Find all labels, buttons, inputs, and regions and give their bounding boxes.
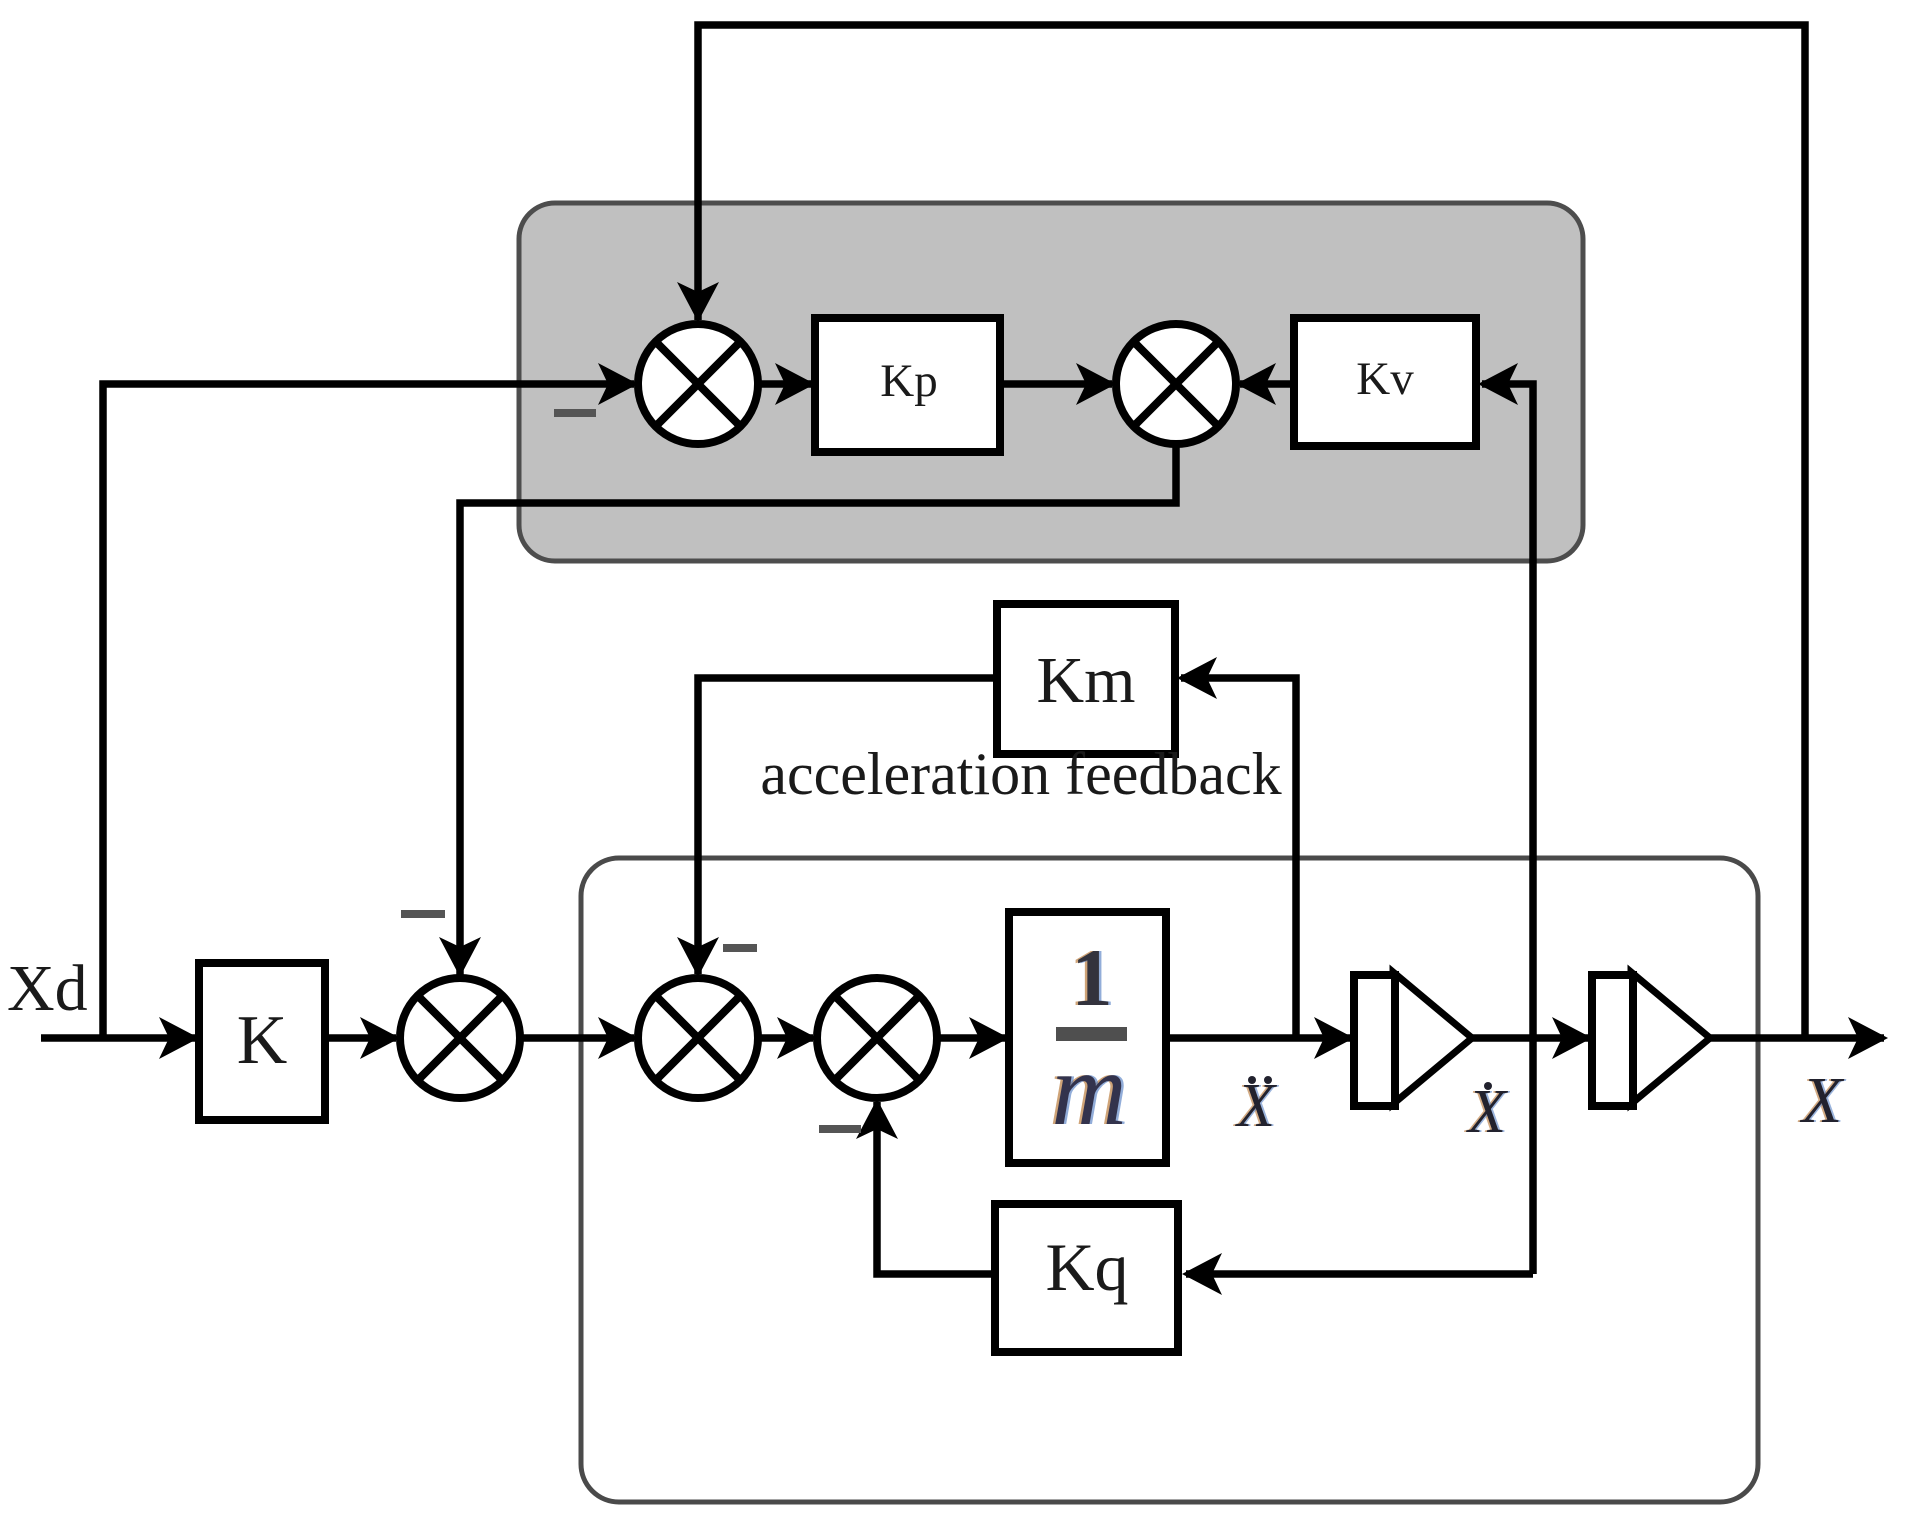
svg-text:Kp: Kp — [880, 355, 937, 407]
minus sign at top summing junction — [554, 409, 596, 417]
wire Kq output up to summing junction C — [877, 1102, 995, 1274]
summing junction circle A — [400, 978, 520, 1098]
integrator 2 — [1592, 972, 1710, 1106]
wire integrator 1 to integrator 2 — [1472, 1034, 1588, 1042]
label Xdot (velocity) — [1463, 1078, 1510, 1146]
plant rounded outline box — [581, 858, 1758, 1502]
wire output X — [1710, 1034, 1884, 1042]
wire Kp to summing junction 2 — [1000, 380, 1112, 388]
wire Km output down to summing junction B — [698, 678, 997, 974]
wire Xd input — [41, 1034, 197, 1042]
svg-text:K: K — [237, 1002, 288, 1079]
gain block Kv — [1294, 318, 1476, 446]
svg-text:m: m — [1051, 1032, 1126, 1147]
wire summing junction B to summing junction C — [758, 1034, 813, 1042]
minus sign at summing junction B — [723, 944, 757, 952]
svg-text:Kv: Kv — [1356, 353, 1414, 405]
gain block 1/m — [1009, 912, 1166, 1163]
integrator 1 — [1354, 972, 1472, 1106]
svg-text:X: X — [1799, 1064, 1845, 1137]
gain block Kp — [815, 318, 1000, 452]
gain block Km — [997, 604, 1175, 754]
wire K to summing junction A — [325, 1034, 396, 1042]
gain block K — [199, 963, 325, 1120]
label X (position output) — [1797, 1064, 1847, 1137]
svg-text:1: 1 — [1072, 932, 1113, 1023]
wire acceleration branch up to Km — [1181, 678, 1296, 1038]
wire summing junction C to 1/m — [937, 1034, 1005, 1042]
label Xdd (acceleration) — [1232, 1072, 1279, 1140]
summing junction circle top-right — [1116, 324, 1236, 444]
wire Xd branch up to top summing junction — [103, 384, 634, 1038]
wire summing junction 2 down to second row summing junction A — [460, 444, 1176, 976]
wire 1/m to integrator 1 — [1166, 1034, 1350, 1042]
controller gray rounded box — [519, 203, 1583, 561]
wire summing junction A to summing junction B — [520, 1034, 634, 1042]
minus sign at summing junction C — [819, 1125, 861, 1133]
wire Kq input from velocity line — [1186, 1270, 1533, 1278]
svg-text:acceleration feedback: acceleration feedback — [760, 741, 1281, 807]
wire velocity feedback into Kv — [1482, 384, 1533, 1274]
gain block Kq — [995, 1204, 1178, 1352]
svg-text:Xd: Xd — [7, 952, 88, 1025]
summing junction circle top-left — [638, 324, 758, 444]
minus sign at summing junction A — [401, 910, 445, 918]
wire top feedback from output X — [698, 25, 1805, 1038]
wire Kv to summing junction 2 — [1240, 380, 1294, 388]
summing junction circle C — [817, 978, 937, 1098]
svg-text:Km: Km — [1037, 644, 1136, 717]
summing junction circle B — [638, 978, 758, 1098]
wire summing junction 1 to Kp — [758, 380, 811, 388]
svg-text:Kq: Kq — [1045, 1229, 1128, 1305]
